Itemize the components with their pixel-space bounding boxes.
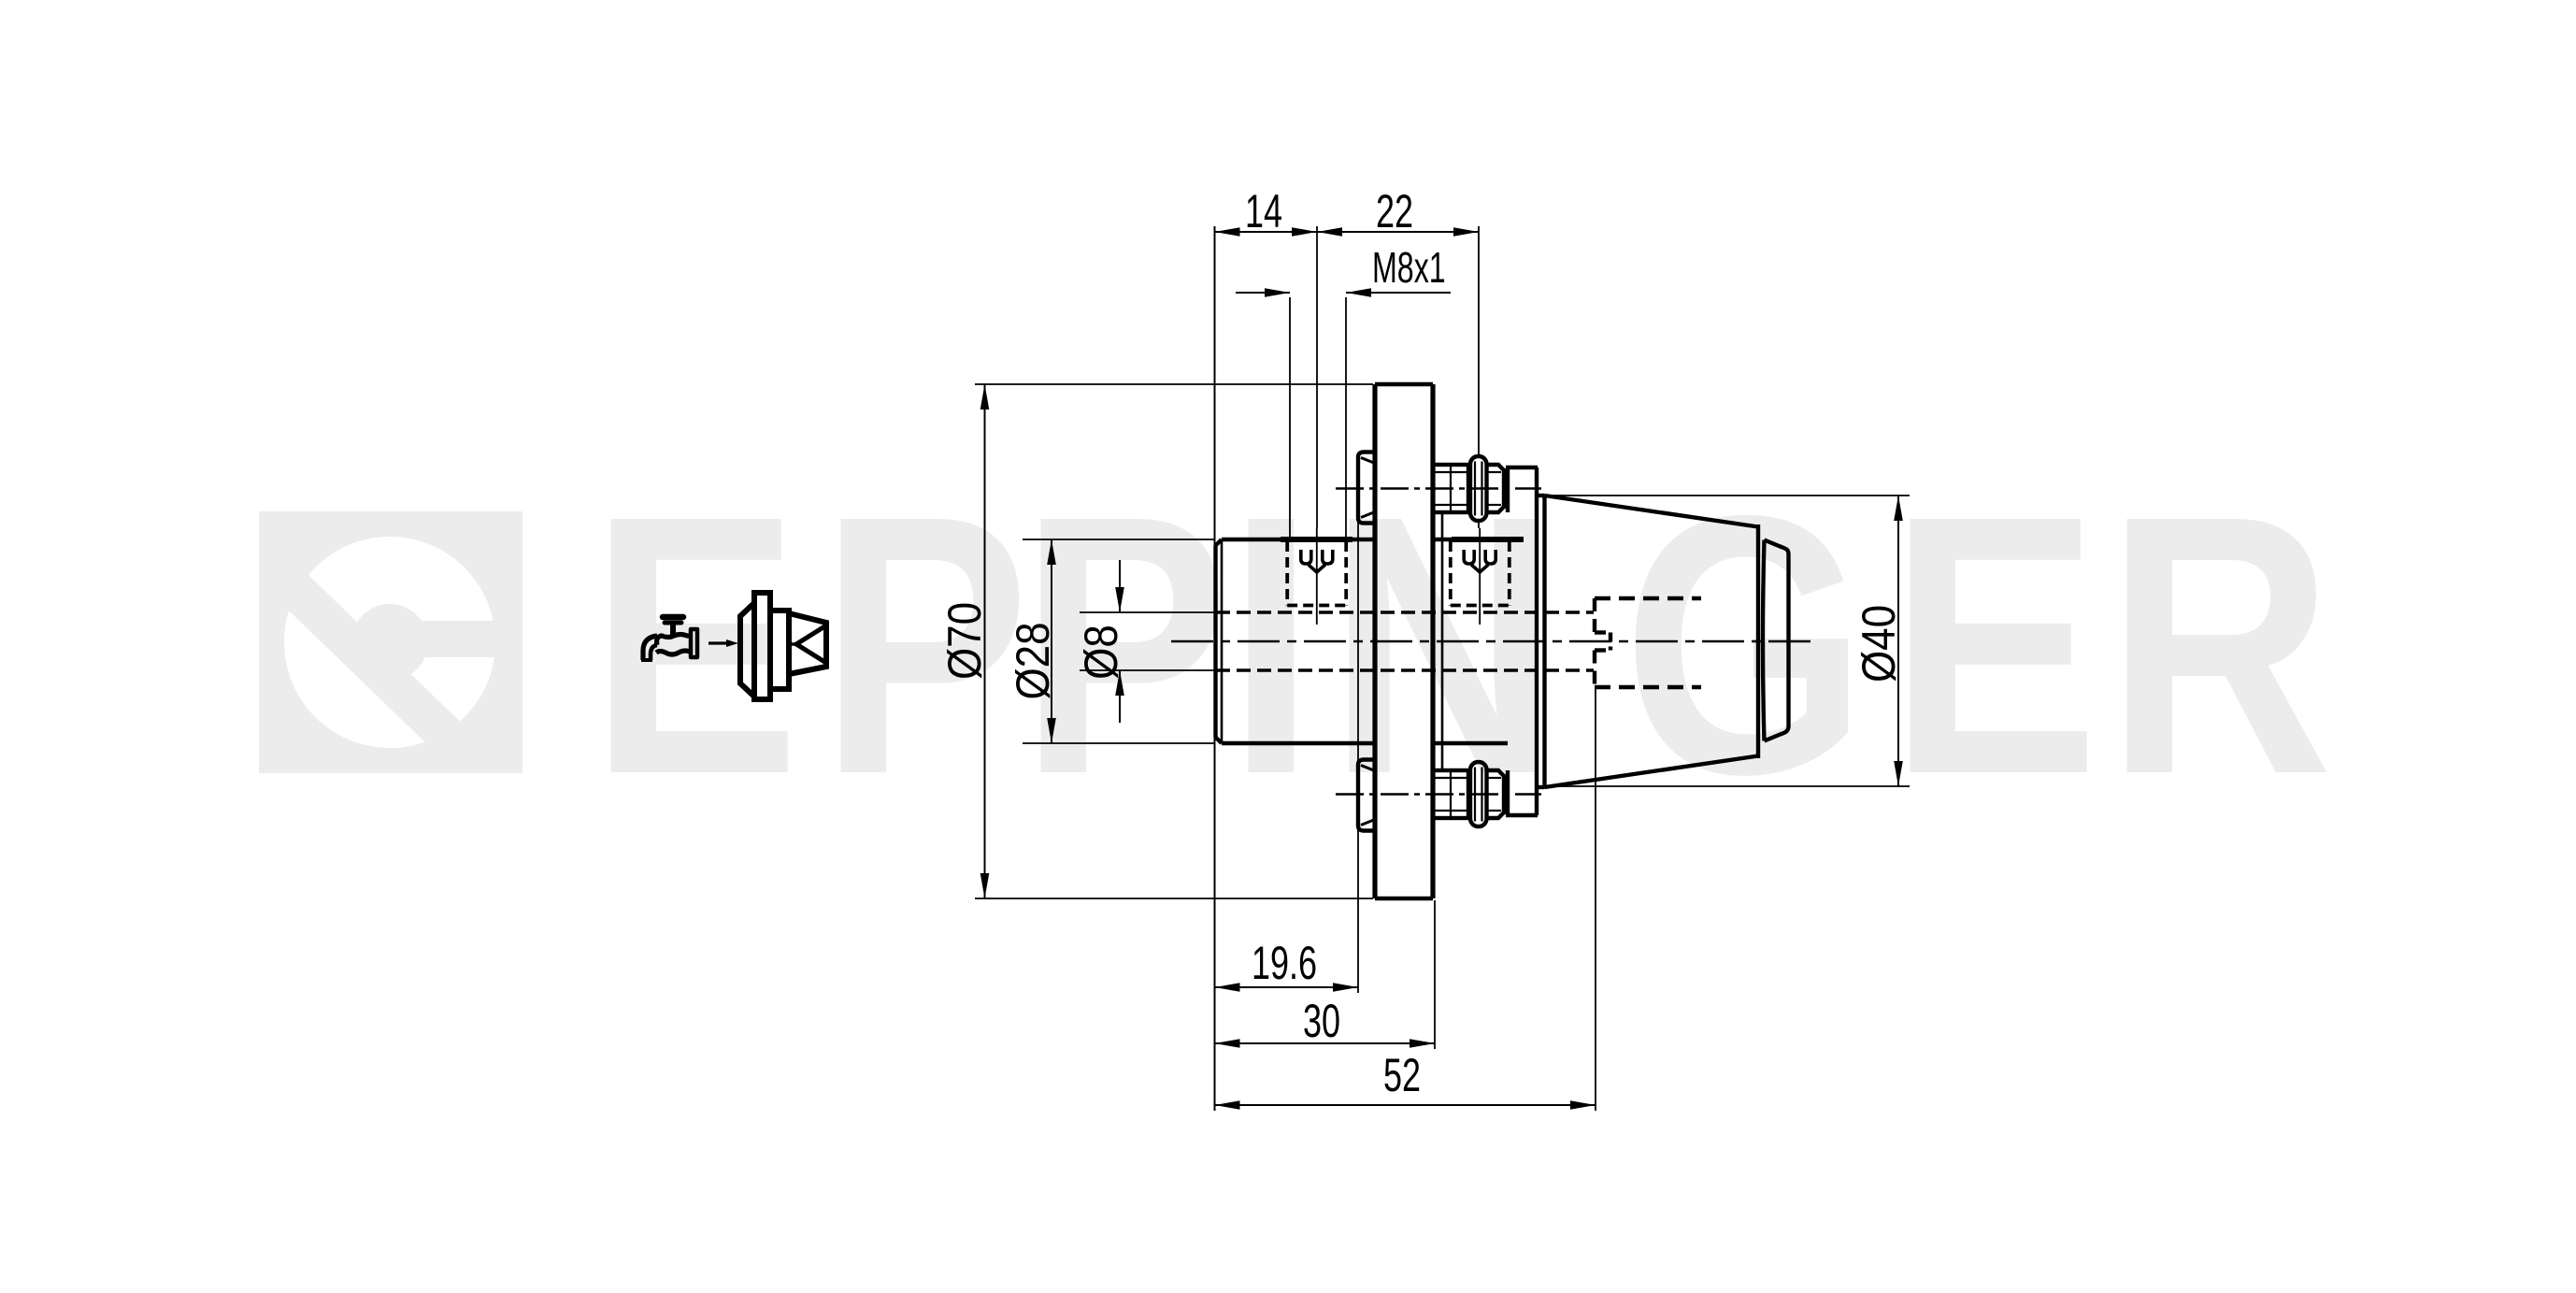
svg-text:14: 14: [1245, 186, 1282, 237]
svg-text:22: 22: [1376, 186, 1413, 237]
svg-text:Ø70: Ø70: [937, 602, 990, 680]
svg-text:19.6: 19.6: [1252, 938, 1317, 989]
svg-text:Ø40: Ø40: [1852, 605, 1904, 682]
svg-text:P: P: [820, 438, 1030, 851]
svg-text:Ø28: Ø28: [1006, 622, 1058, 699]
svg-text:Ø8: Ø8: [1074, 625, 1126, 680]
svg-text:52: 52: [1383, 1050, 1421, 1101]
svg-text:30: 30: [1303, 996, 1340, 1047]
svg-text:I: I: [1227, 438, 1315, 851]
svg-text:G: G: [1623, 438, 1868, 851]
svg-text:R: R: [2106, 438, 2333, 851]
svg-text:E: E: [1889, 438, 2099, 851]
svg-text:M8x1: M8x1: [1372, 244, 1446, 292]
